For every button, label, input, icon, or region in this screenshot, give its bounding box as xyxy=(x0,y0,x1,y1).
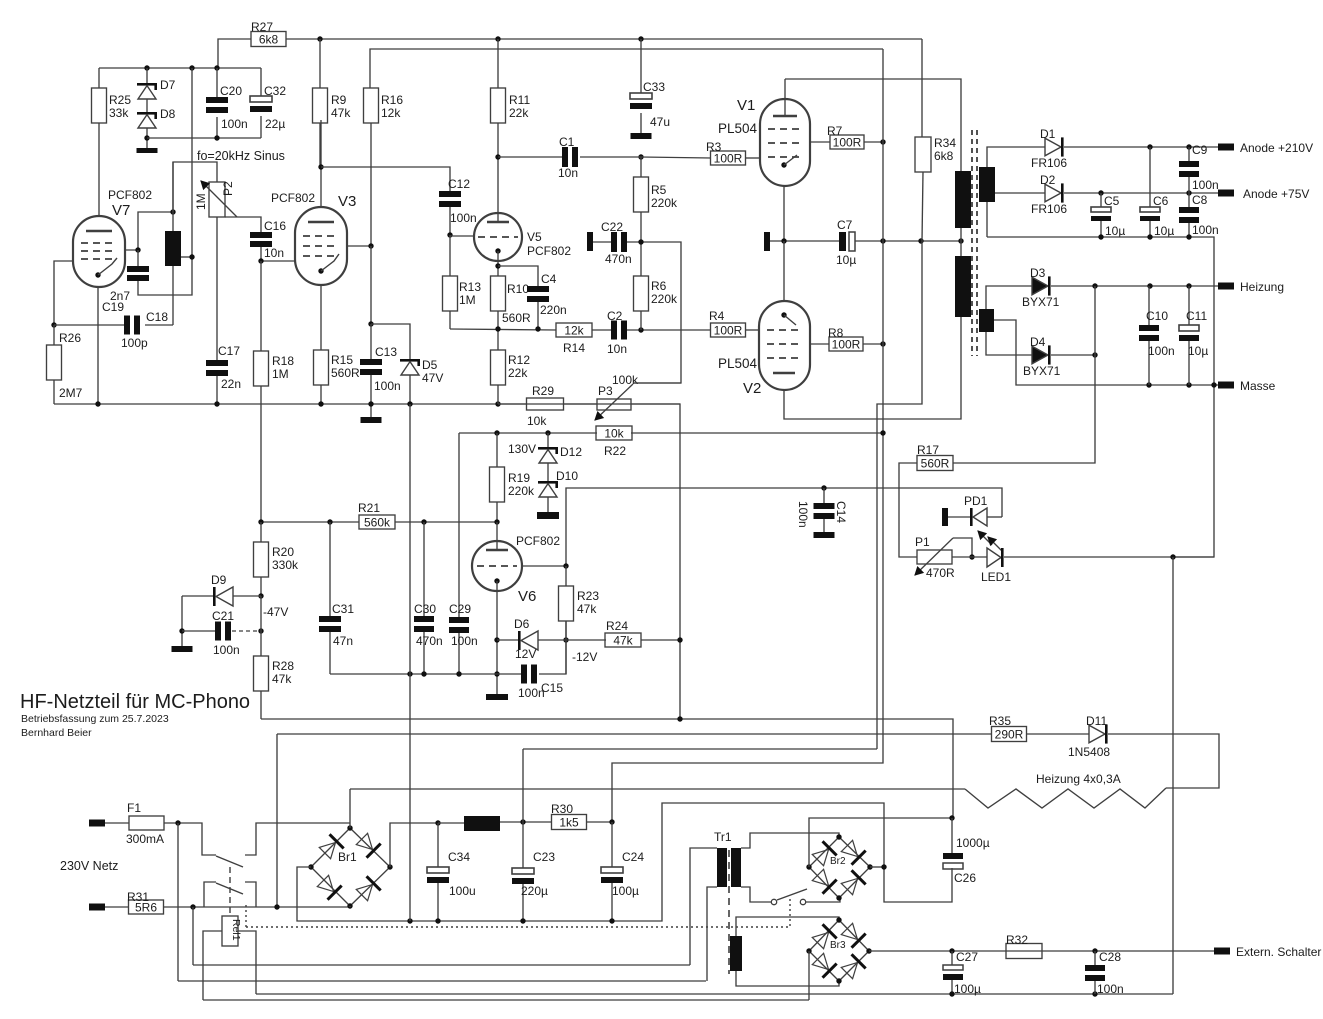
wire R21 row y=522 xyxy=(261,521,359,523)
capacitor C31 xyxy=(329,522,331,616)
svg-text:1M: 1M xyxy=(194,193,208,210)
transformer TR core dashes xyxy=(971,130,973,356)
svg-text:290R: 290R xyxy=(995,728,1024,742)
resistor R22 xyxy=(596,426,632,440)
wire heater center tap to Masse xyxy=(994,320,1218,385)
svg-text:C27: C27 xyxy=(956,950,978,964)
svg-text:C9: C9 xyxy=(1192,143,1208,157)
svg-text:LED1: LED1 xyxy=(981,570,1011,584)
svg-text:33k: 33k xyxy=(109,106,129,120)
svg-text:100n: 100n xyxy=(1097,982,1124,996)
svg-text:C5: C5 xyxy=(1104,194,1120,208)
wire grid junction to R23 xyxy=(565,566,567,586)
plate terminator below C33 xyxy=(631,133,652,139)
resistor R35 xyxy=(992,727,1027,742)
resistor R26 xyxy=(53,325,55,345)
transformer TR primary winding 2 xyxy=(955,256,971,317)
svg-text:V1: V1 xyxy=(737,97,755,114)
junction dot R11 bottom node xyxy=(495,154,500,159)
wire Br3 right vertex to extern row xyxy=(869,950,1214,952)
svg-text:560R: 560R xyxy=(331,366,360,380)
svg-text:12k: 12k xyxy=(564,324,584,338)
capacitor C1 xyxy=(562,147,568,167)
junction dots Br3 xyxy=(836,917,841,922)
svg-text:R25: R25 xyxy=(109,93,131,107)
svg-text:PL504: PL504 xyxy=(718,356,758,371)
tube V6 PCF802 envelope xyxy=(472,541,522,591)
svg-text:BYX71: BYX71 xyxy=(1022,295,1060,309)
junction dot LED1 rail xyxy=(1170,554,1175,559)
svg-text:R12: R12 xyxy=(508,353,530,367)
wire C12 node to V5 grid xyxy=(450,235,475,237)
diode D2 FR106 xyxy=(1045,184,1061,202)
capacitor C34 electrolytic xyxy=(437,823,439,867)
wire V3 grid to R16 xyxy=(347,245,371,247)
svg-text:C23: C23 xyxy=(533,850,555,864)
svg-text:560R: 560R xyxy=(921,457,950,471)
svg-text:V7: V7 xyxy=(112,202,130,219)
svg-text:47V: 47V xyxy=(422,371,443,385)
capacitor C26 electrolytic xyxy=(951,818,953,853)
svg-text:6k8: 6k8 xyxy=(934,149,954,163)
svg-text:R7: R7 xyxy=(827,124,843,138)
svg-text:R28: R28 xyxy=(272,659,294,673)
svg-text:47k: 47k xyxy=(577,602,597,616)
svg-text:D9: D9 xyxy=(211,573,227,587)
inductor choke black bar xyxy=(165,231,181,266)
wire R27 left to C20 node xyxy=(218,39,251,68)
capacitor C5 electrolytic xyxy=(1100,193,1102,207)
fuse F1 xyxy=(105,822,129,824)
junction dot V6 grid xyxy=(563,563,568,568)
svg-text:PCF802: PCF802 xyxy=(527,244,571,258)
resistor R3 xyxy=(711,151,746,165)
capacitor C32 electrolytic xyxy=(260,68,262,96)
tube V1 cathode xyxy=(781,162,786,167)
tube V3 cathode xyxy=(318,268,323,273)
capacitor C7 electrolytic xyxy=(839,232,846,251)
wire Br1 top vertex up xyxy=(349,789,351,828)
svg-text:R22: R22 xyxy=(604,444,626,458)
svg-text:100n: 100n xyxy=(1192,178,1219,192)
svg-text:D2: D2 xyxy=(1040,173,1056,187)
svg-text:1N5408: 1N5408 xyxy=(1068,745,1110,759)
wire V3 anode node to C12 xyxy=(321,167,450,191)
wire V6 anode to R21 node xyxy=(496,522,498,550)
svg-text:Heizung: Heizung xyxy=(1240,280,1284,294)
junction dot V5 cathode xyxy=(495,263,500,268)
capacitor C12 xyxy=(439,191,461,197)
diode D11 1N5408 xyxy=(1089,725,1105,743)
wire V5 cathode node xyxy=(497,251,499,276)
svg-text:12V: 12V xyxy=(515,647,536,661)
junction dots bus237 xyxy=(1098,234,1103,239)
svg-text:P3: P3 xyxy=(598,384,613,398)
switch S1 pole2 xyxy=(204,882,216,907)
junction dot R8 right xyxy=(880,341,885,346)
svg-text:100k: 100k xyxy=(612,373,639,387)
wire secondary bottom to D2 xyxy=(995,192,1045,194)
svg-text:Bernhard Beier: Bernhard Beier xyxy=(21,727,92,739)
svg-text:220µ: 220µ xyxy=(521,884,548,898)
wire bus404 gaps xyxy=(498,403,527,405)
svg-text:C8: C8 xyxy=(1192,193,1208,207)
wire C22 node xyxy=(627,242,681,383)
wire plate to C22 xyxy=(593,241,611,243)
wire D11 to heater string end xyxy=(1108,734,1219,788)
tube V7 PCF802 envelope xyxy=(73,216,125,287)
junction dots rail y=39 xyxy=(317,36,322,41)
resistor R18 xyxy=(260,261,262,351)
wire node rail y=68 xyxy=(99,67,261,69)
diode D4 BYX71 xyxy=(1032,346,1048,364)
svg-text:10k: 10k xyxy=(527,414,547,428)
svg-text:C10: C10 xyxy=(1146,309,1168,323)
wire V3 anode to R9/C12 node xyxy=(320,120,322,207)
svg-text:230V Netz: 230V Netz xyxy=(60,859,118,873)
transformer Tr1 lower winding bar xyxy=(730,936,742,971)
capacitor C17 xyxy=(206,360,228,366)
svg-text:Br1: Br1 xyxy=(338,850,357,864)
capacitor C28 xyxy=(1094,951,1096,965)
resistor R23 xyxy=(559,586,574,621)
svg-text:C28: C28 xyxy=(1099,950,1121,964)
svg-text:-47V: -47V xyxy=(263,605,288,619)
svg-text:R23: R23 xyxy=(577,589,599,603)
capacitor C9 xyxy=(1188,147,1190,161)
junction dot C14 top xyxy=(821,485,826,490)
resistor R19 xyxy=(496,433,498,467)
terminal Heizung xyxy=(1218,283,1234,290)
wire bus y=981 xyxy=(178,980,706,982)
LED LED1 xyxy=(987,548,1001,567)
wire D4 node up to D3 node and down to R17 xyxy=(953,286,1095,463)
junction dot choke tap xyxy=(189,254,194,259)
svg-text:R6: R6 xyxy=(651,279,667,293)
wire bus y=994 xyxy=(256,993,1173,995)
zener diode D5 xyxy=(371,324,410,359)
resistor R27 xyxy=(251,32,286,47)
junction dots bus921 xyxy=(407,918,412,923)
resistor R6 xyxy=(640,242,642,276)
potentiometer P3 xyxy=(597,399,631,410)
junction dot R24 right xyxy=(677,637,682,642)
svg-text:300mA: 300mA xyxy=(126,832,164,846)
junction dot C21 left xyxy=(179,628,184,633)
junction dot C22 node xyxy=(638,239,643,244)
svg-text:P2: P2 xyxy=(221,181,235,196)
svg-text:100µ: 100µ xyxy=(954,982,981,996)
svg-text:C2: C2 xyxy=(607,309,623,323)
wire ground bus y=674 xyxy=(330,673,521,675)
wire P3 wiper to C22 node xyxy=(633,382,681,384)
tube V2 PL504 envelope xyxy=(759,301,810,390)
wire Tr1 sec top to Br2 xyxy=(741,833,839,848)
svg-text:C14: C14 xyxy=(834,501,848,523)
diode D6 xyxy=(497,639,519,641)
ground bar below D10 xyxy=(537,512,559,519)
wire D2 to anode75 terminal xyxy=(1064,192,1218,194)
junction dot bus719 xyxy=(677,716,682,721)
wire LED rail down to bottom bus xyxy=(1172,557,1174,994)
svg-text:R11: R11 xyxy=(509,93,530,107)
svg-text:R31: R31 xyxy=(127,890,149,904)
svg-text:R13: R13 xyxy=(459,280,481,294)
capacitor C21 xyxy=(182,630,215,632)
resistor R31 xyxy=(105,906,129,908)
junction dot C13 node xyxy=(368,321,373,326)
junction dot C24 top xyxy=(609,819,614,824)
svg-text:C30: C30 xyxy=(414,602,436,616)
svg-text:1M: 1M xyxy=(272,367,289,381)
wire D1 to anode210 terminal xyxy=(1064,146,1218,148)
wire R35 bus y=734 xyxy=(277,733,992,735)
junction dot C12 bottom xyxy=(447,232,452,237)
svg-text:22k: 22k xyxy=(508,366,528,380)
svg-text:Anode +210V: Anode +210V xyxy=(1240,141,1313,155)
capacitor C24 electrolytic xyxy=(611,822,613,867)
wire R28 bus y=719 xyxy=(261,719,953,818)
wire R17 left down to P1 row xyxy=(899,463,917,557)
svg-text:PCF802: PCF802 xyxy=(516,534,560,548)
svg-text:R35: R35 xyxy=(989,714,1011,728)
junction dots y=241 xyxy=(781,238,786,243)
tube V1 anode plate xyxy=(773,115,797,117)
svg-text:100n: 100n xyxy=(213,643,240,657)
capacitor C16 xyxy=(250,232,272,238)
resistor R8 xyxy=(810,343,829,345)
resistor R10 xyxy=(491,276,506,311)
svg-text:BYX71: BYX71 xyxy=(1023,364,1061,378)
terminal Masse xyxy=(1218,382,1234,389)
svg-text:D1: D1 xyxy=(1040,127,1056,141)
svg-text:C16: C16 xyxy=(264,219,286,233)
tube V7 anode plate xyxy=(86,230,112,232)
wire Br3 left vertex to Rel bus xyxy=(808,951,810,1000)
capacitor C10 xyxy=(1148,286,1150,325)
resistor R34 xyxy=(915,137,931,172)
junction dot C34 top xyxy=(435,820,440,825)
wire mains verticals to buses xyxy=(177,823,179,981)
terminal Anode +210V xyxy=(1218,144,1234,151)
svg-text:100n: 100n xyxy=(1192,223,1219,237)
svg-text:100p: 100p xyxy=(121,336,148,350)
junction dots bus674 xyxy=(407,671,412,676)
svg-text:100R: 100R xyxy=(714,324,743,338)
capacitor C19 xyxy=(137,250,139,266)
wire Br2 left vertex to C26 rail xyxy=(809,818,952,867)
svg-text:560k: 560k xyxy=(364,516,391,530)
resistor R21 xyxy=(359,515,395,529)
tube V5 grid dash xyxy=(478,236,518,238)
junction dots Br2 xyxy=(836,834,841,839)
resistor R28 xyxy=(254,656,269,691)
svg-text:12k: 12k xyxy=(381,106,401,120)
wire secondary top to D1 xyxy=(987,147,1045,167)
capacitor C20 xyxy=(216,68,218,97)
svg-text:D3: D3 xyxy=(1030,266,1046,280)
junction dots Br1 xyxy=(347,825,352,830)
wire Tr1 primary bottom xyxy=(707,887,717,981)
wire bus y=329 xyxy=(450,329,556,330)
wire DC minus bus y=237 xyxy=(987,237,1214,557)
wire V5 anode to R11 node xyxy=(497,157,499,222)
svg-text:C17: C17 xyxy=(218,344,240,358)
svg-text:V5: V5 xyxy=(527,230,542,244)
wire V1 anode to transformer primary top xyxy=(784,79,786,99)
capacitor C30 xyxy=(423,522,425,616)
svg-text:Anode +75V: Anode +75V xyxy=(1243,187,1309,201)
svg-text:R26: R26 xyxy=(59,331,81,345)
svg-text:R16: R16 xyxy=(381,93,403,107)
svg-text:1k5: 1k5 xyxy=(559,816,579,830)
plate terminator left of C7 xyxy=(764,232,770,251)
junction dots V6 cathode path xyxy=(494,637,499,642)
svg-text:220n: 220n xyxy=(540,303,567,317)
heater string zigzag xyxy=(965,788,1166,808)
svg-text:100n: 100n xyxy=(221,117,248,131)
svg-text:220k: 220k xyxy=(651,292,678,306)
svg-text:C22: C22 xyxy=(601,220,623,234)
wire D3 to Heizung terminal xyxy=(1051,285,1218,287)
switch S1 pole1 xyxy=(216,856,243,867)
terminal Anode +75V xyxy=(1218,190,1234,197)
junction dot R7 right xyxy=(880,139,885,144)
wire B+ top rail y=39 xyxy=(286,38,922,40)
capacitor C23 electrolytic xyxy=(522,822,524,868)
junction dot C23 top xyxy=(520,819,525,824)
resistor R17 xyxy=(917,456,953,471)
junction dot V7 grid node xyxy=(135,247,140,252)
resistor R7 xyxy=(810,141,830,143)
ground bar below C13 xyxy=(361,417,382,423)
svg-text:D12: D12 xyxy=(560,445,582,459)
svg-text:R24: R24 xyxy=(606,619,628,633)
wire heater winding top to D3 xyxy=(986,286,1032,309)
svg-text:47u: 47u xyxy=(650,115,670,129)
wire main bus y=404 xyxy=(54,404,680,719)
wire bottom of C20/C32 y=138 xyxy=(147,137,261,139)
resistor R13 xyxy=(449,235,451,276)
svg-text:D10: D10 xyxy=(556,469,578,483)
svg-text:PD1: PD1 xyxy=(964,494,988,508)
resistor R25 xyxy=(98,68,100,88)
svg-text:130V: 130V xyxy=(508,442,536,456)
svg-text:C21: C21 xyxy=(212,609,234,623)
junction dot LED anode xyxy=(969,554,974,559)
junction dot Br2 right xyxy=(881,864,886,869)
svg-text:22n: 22n xyxy=(221,377,241,391)
resistor R5 xyxy=(640,157,642,177)
capacitor C18 xyxy=(54,324,124,326)
svg-text:C32: C32 xyxy=(264,84,286,98)
inductor filter choke xyxy=(438,822,464,824)
svg-text:D7: D7 xyxy=(160,78,176,92)
zener diode D8 xyxy=(146,99,148,112)
svg-text:22µ: 22µ xyxy=(265,117,285,131)
svg-text:C24: C24 xyxy=(622,850,644,864)
svg-text:R34: R34 xyxy=(934,136,956,150)
resistor R29 xyxy=(527,398,564,410)
wire C16 to V3 grid pin xyxy=(261,260,295,262)
junction dots extern row xyxy=(949,948,954,953)
resistor R32 xyxy=(1006,944,1042,959)
junction dot F1 out xyxy=(175,820,180,825)
wire R35 to D11 xyxy=(1026,733,1089,735)
svg-text:100µ: 100µ xyxy=(612,884,639,898)
bridge rectifier Br1 xyxy=(311,828,390,906)
capacitor C6 electrolytic xyxy=(1149,147,1151,207)
svg-text:HF-Netzteil für MC-Phono: HF-Netzteil für MC-Phono xyxy=(20,691,250,713)
capacitor C15 xyxy=(521,665,527,684)
capacitor C33 electrolytic xyxy=(640,39,642,93)
ground bar left of C21 xyxy=(172,646,193,652)
diode D1 FR106 xyxy=(1045,138,1061,156)
wire choke node to P2 top xyxy=(173,162,217,212)
wire C7 row y=241 xyxy=(770,240,839,242)
svg-text:330k: 330k xyxy=(272,558,299,572)
capacitor C22 xyxy=(611,232,617,252)
resistor R11 xyxy=(497,39,499,88)
svg-text:R21: R21 xyxy=(358,501,380,515)
wire LV ground bus y=921 xyxy=(410,803,952,921)
wire V2 top from C7 node xyxy=(783,241,785,301)
svg-text:Betriebsfassung zum 25.7.2023: Betriebsfassung zum 25.7.2023 xyxy=(21,713,169,725)
wire V3 cathode to R15 xyxy=(320,285,322,350)
svg-text:C29: C29 xyxy=(449,602,471,616)
wire P1 wiper xyxy=(953,538,972,557)
svg-text:1000µ: 1000µ xyxy=(956,836,990,850)
svg-text:C15: C15 xyxy=(541,681,563,695)
svg-text:D4: D4 xyxy=(1030,335,1046,349)
junction dots Heizung rail xyxy=(1092,283,1097,288)
svg-text:100n: 100n xyxy=(1148,344,1175,358)
capacitor C2 xyxy=(611,321,617,340)
tube V6 anode plate xyxy=(486,549,508,551)
wire node down x=192 xyxy=(191,68,193,257)
tube V2 grids xyxy=(767,329,801,331)
ground bar below C14 xyxy=(814,532,835,538)
svg-text:D5: D5 xyxy=(422,358,438,372)
junction dot D6 right xyxy=(563,637,568,642)
svg-text:F1: F1 xyxy=(127,801,141,815)
svg-text:C6: C6 xyxy=(1153,194,1169,208)
dotted control line xyxy=(245,905,247,927)
svg-text:100n: 100n xyxy=(451,634,478,648)
svg-text:10n: 10n xyxy=(264,246,284,260)
svg-text:D11: D11 xyxy=(1086,714,1107,728)
transformer Tr1 core dash xyxy=(728,850,730,974)
svg-text:6k8: 6k8 xyxy=(259,33,279,47)
svg-text:R29: R29 xyxy=(532,384,554,398)
resistor R4 xyxy=(711,323,746,337)
tube V2 cathode plate xyxy=(773,372,795,374)
wire V6 grid to y=488 line xyxy=(522,488,1002,566)
transformer Tr1 primary bar xyxy=(717,848,727,887)
wire rail y=49 xyxy=(370,49,883,88)
wire V7 left pin to R26 xyxy=(54,261,73,325)
junction dots Masse rail xyxy=(1146,382,1151,387)
wire LED1 to bus237 vertical xyxy=(1004,556,1214,558)
wire D4 to junction xyxy=(1051,354,1095,356)
svg-text:R8: R8 xyxy=(828,326,844,340)
wire rail y=39 down x=922 xyxy=(921,39,923,137)
svg-text:10n: 10n xyxy=(558,166,578,180)
svg-text:Rel1: Rel1 xyxy=(230,919,242,941)
wire bus y=1000 xyxy=(203,999,809,1001)
tube V7 grids xyxy=(81,242,117,244)
svg-text:C26: C26 xyxy=(954,871,976,885)
